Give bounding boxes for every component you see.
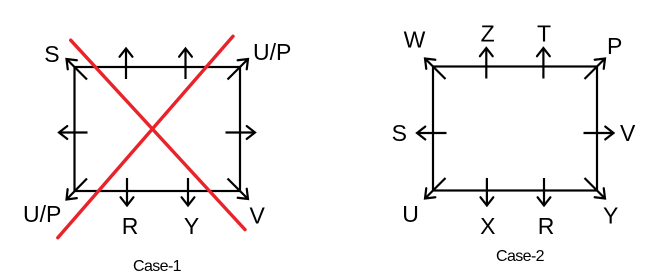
arrow left edge (unlabeled left) bbox=[59, 131, 88, 133]
svg-text:U/P: U/P bbox=[23, 201, 61, 227]
arrow top-right corner (to label P) bbox=[585, 59, 606, 80]
svg-text:R: R bbox=[122, 213, 139, 239]
svg-text:X: X bbox=[480, 213, 495, 239]
svg-text:Y: Y bbox=[603, 203, 618, 229]
svg-text:T: T bbox=[537, 21, 551, 47]
svg-text:Z: Z bbox=[481, 21, 495, 47]
svg-text:Case-1: Case-1 bbox=[133, 258, 182, 275]
svg-text:V: V bbox=[620, 120, 636, 146]
red cross line SW-NE bbox=[58, 36, 233, 237]
arrow bottom-left corner (to label U) bbox=[425, 178, 446, 199]
svg-text:Case-2: Case-2 bbox=[496, 248, 545, 265]
arrow top edge 1 (to label Z) bbox=[485, 48, 487, 79]
arrow bottom edge 1 (to label R) bbox=[126, 178, 128, 206]
arrow top edge 2 (unlabeled up) bbox=[184, 49, 186, 80]
svg-text:W: W bbox=[404, 27, 426, 53]
arrow top-left corner (to label W) bbox=[425, 59, 446, 80]
arrow bottom edge 1 (to label X) bbox=[486, 178, 488, 206]
arrow top-right corner (to label U/P) bbox=[228, 59, 249, 80]
svg-text:S: S bbox=[44, 41, 59, 67]
rectangle Case-1 box bbox=[75, 67, 241, 191]
arrow bottom edge 2 (to label R) bbox=[543, 178, 545, 206]
arrow bottom-right corner (to label V) bbox=[228, 179, 249, 200]
svg-text:P: P bbox=[607, 33, 622, 59]
arrow top-left corner (to label S) bbox=[67, 59, 88, 80]
svg-text:R: R bbox=[538, 213, 555, 239]
arrow bottom-right corner (to label Y) bbox=[585, 178, 606, 199]
svg-text:V: V bbox=[250, 203, 266, 229]
arrow bottom-left corner (to label U/P) bbox=[67, 179, 88, 200]
svg-text:Y: Y bbox=[184, 213, 199, 239]
svg-text:U: U bbox=[402, 201, 419, 227]
arrow top edge 2 (to label T) bbox=[542, 48, 544, 79]
arrow bottom edge 2 (to label Y) bbox=[187, 178, 189, 206]
arrow left edge (to label S) bbox=[417, 132, 447, 134]
arrow right edge (to label V) bbox=[584, 132, 614, 134]
red cross line NW-SE bbox=[71, 40, 245, 229]
svg-text:U/P: U/P bbox=[253, 39, 291, 65]
rectangle Case-2 box bbox=[433, 67, 597, 191]
arrow right edge (unlabeled right) bbox=[226, 131, 256, 133]
svg-text:S: S bbox=[392, 120, 407, 146]
arrow top edge 1 (unlabeled up) bbox=[125, 49, 127, 80]
